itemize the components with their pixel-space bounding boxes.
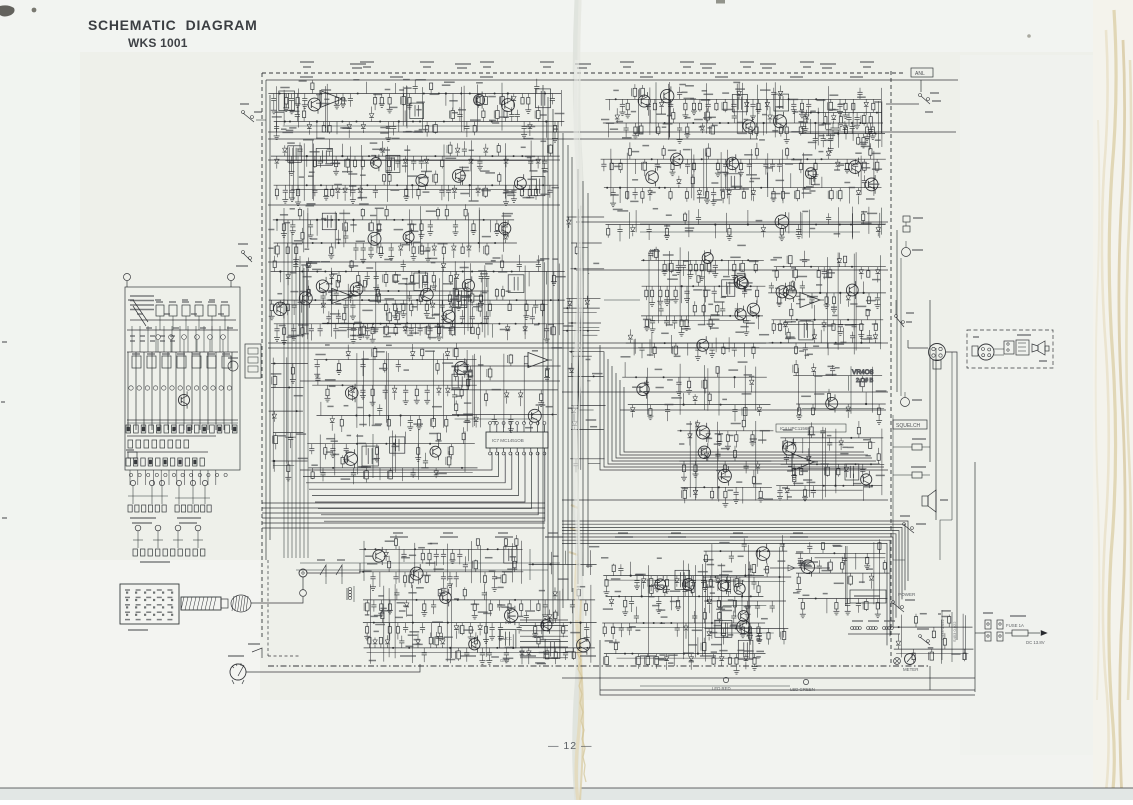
wire IC7 fan (318, 452, 532, 508)
node (842, 485, 844, 487)
label (462, 170, 469, 172)
capacitor (429, 324, 431, 329)
label (399, 89, 404, 91)
wire (758, 316, 760, 329)
label (716, 469, 723, 471)
inductor (839, 188, 841, 191)
capacitor (667, 405, 669, 410)
label (799, 110, 805, 112)
wire (365, 444, 367, 455)
wire (571, 405, 605, 407)
wire (880, 88, 882, 133)
capacitor (801, 288, 803, 293)
resistor (812, 404, 814, 408)
label (709, 318, 720, 320)
node (780, 342, 782, 344)
wire TX bus 2 (296, 569, 548, 571)
capacitor (454, 390, 456, 395)
resistor (302, 239, 304, 243)
label (860, 142, 868, 144)
resistor (837, 464, 839, 468)
node (375, 548, 377, 550)
wire (443, 145, 445, 197)
diode (573, 406, 575, 409)
label (776, 106, 784, 108)
diode (877, 267, 879, 270)
label (442, 283, 453, 285)
resistor (828, 400, 830, 404)
label (857, 96, 866, 98)
capacitor (868, 338, 870, 343)
resistor (793, 482, 795, 486)
diode (331, 272, 333, 275)
diode (276, 156, 278, 159)
label (776, 179, 785, 181)
label (680, 320, 686, 322)
scan artifact dot (32, 8, 37, 13)
capacitor (479, 156, 481, 161)
node (664, 342, 666, 344)
inductor (427, 323, 429, 326)
resistor (505, 545, 507, 549)
node (327, 322, 329, 324)
label (384, 259, 392, 261)
label (306, 261, 312, 263)
resistor (753, 483, 755, 487)
diode (766, 99, 768, 102)
label (460, 193, 469, 195)
node (434, 155, 436, 157)
label (568, 407, 579, 409)
transistor (776, 286, 788, 298)
label (527, 157, 532, 159)
capacitor (698, 220, 700, 225)
capacitor (551, 94, 553, 99)
wire (679, 460, 771, 462)
label (298, 324, 309, 326)
capacitor (717, 456, 719, 461)
label (650, 191, 656, 193)
capacitor (397, 360, 399, 365)
inductor (827, 464, 829, 467)
label (413, 423, 423, 425)
AGC stage (621, 329, 770, 360)
node (330, 299, 332, 301)
label (307, 262, 317, 264)
label (458, 109, 466, 111)
resistor (844, 263, 846, 267)
capacitor (848, 113, 850, 118)
wire (790, 173, 792, 188)
capacitor (463, 151, 465, 156)
label (359, 424, 366, 426)
wire (504, 143, 506, 198)
wire (511, 543, 513, 582)
label (791, 159, 802, 161)
wire (852, 474, 854, 486)
label (861, 222, 872, 224)
capacitor (317, 380, 319, 385)
label (802, 188, 811, 190)
wire (469, 185, 471, 197)
label (807, 353, 813, 355)
wire (394, 584, 396, 658)
resistor (684, 99, 686, 103)
label (634, 132, 643, 134)
label (682, 91, 688, 93)
label (409, 332, 419, 334)
wire (418, 272, 420, 284)
node (859, 122, 861, 124)
diode (359, 185, 361, 188)
label (844, 182, 850, 184)
resistor (389, 181, 391, 185)
label (862, 338, 872, 340)
wire (606, 224, 886, 226)
label (828, 109, 836, 111)
label (348, 290, 358, 292)
wire (767, 153, 769, 197)
IC7 pin (503, 425, 505, 432)
node (396, 184, 398, 186)
diode (337, 185, 339, 188)
capacitor (855, 159, 857, 164)
label (775, 287, 780, 289)
detector column (798, 97, 885, 152)
capacitor (322, 468, 324, 473)
dashed board border top (262, 72, 905, 74)
inductor (275, 433, 277, 436)
wire (468, 213, 470, 248)
capacitor (722, 311, 724, 316)
resistor (722, 343, 724, 347)
label (426, 562, 436, 564)
wire (433, 351, 435, 422)
label (840, 341, 846, 343)
transistor (452, 170, 465, 183)
label (306, 265, 312, 267)
wire (414, 543, 416, 577)
resistor (872, 99, 874, 103)
capacitor (832, 123, 834, 128)
wire (363, 622, 597, 624)
diode (350, 291, 352, 294)
label (386, 344, 392, 346)
label (847, 446, 853, 448)
wire y262 (268, 261, 540, 263)
label (407, 223, 416, 225)
capacitor (770, 288, 772, 293)
wire (359, 283, 361, 331)
diode (758, 405, 760, 408)
resistor (323, 122, 325, 126)
capacitor (537, 267, 539, 272)
label (749, 260, 759, 262)
resistor (815, 159, 817, 163)
wire (276, 220, 278, 231)
wire bus stub (520, 624, 568, 626)
node (498, 323, 500, 325)
label (833, 109, 839, 111)
label (536, 404, 546, 406)
capacitor (666, 316, 668, 321)
label (493, 257, 501, 259)
node (635, 376, 637, 378)
wire (305, 262, 307, 333)
capacitor (530, 156, 532, 161)
label (428, 337, 437, 339)
capacitor (714, 260, 716, 265)
label (606, 122, 614, 124)
capacitor (384, 385, 386, 390)
wire IC7 fan (321, 452, 538, 515)
transistor (274, 302, 287, 315)
label (808, 434, 816, 436)
wire (507, 94, 509, 104)
label (457, 373, 465, 375)
wire y300 right (604, 299, 640, 301)
wire (450, 584, 452, 658)
node (593, 375, 595, 377)
label (613, 208, 623, 210)
label (698, 324, 706, 326)
resistor (496, 220, 498, 224)
node (810, 112, 812, 114)
wire (375, 262, 377, 334)
wire (330, 295, 470, 297)
wire (320, 94, 322, 106)
node (531, 414, 533, 416)
capacitor (683, 260, 685, 265)
diode (568, 217, 570, 220)
capacitor (335, 324, 337, 329)
label (476, 82, 483, 84)
IC2 MC1458 squelch (641, 245, 765, 336)
wire IC7 fan (324, 452, 545, 521)
resistor (342, 464, 344, 468)
resistor (389, 94, 391, 98)
wire (796, 403, 886, 405)
capacitor (410, 324, 412, 329)
label (810, 228, 816, 230)
center filter (451, 348, 562, 433)
label (793, 482, 803, 484)
capacitor (435, 549, 437, 554)
resistor (780, 123, 782, 127)
wire (837, 134, 839, 148)
label (324, 98, 329, 100)
wire (558, 264, 560, 336)
resistor (409, 94, 411, 98)
diode (412, 357, 414, 360)
wire (579, 247, 587, 249)
label (387, 332, 398, 334)
label (370, 142, 378, 144)
label (272, 116, 282, 118)
node (727, 122, 729, 124)
resistor (388, 156, 390, 160)
wire (274, 304, 548, 306)
node (416, 599, 418, 601)
capacitor (396, 595, 398, 600)
label (370, 215, 376, 217)
wire nested bend (624, 387, 864, 452)
label (534, 324, 539, 326)
label (463, 371, 471, 373)
label (730, 256, 740, 258)
diode (433, 243, 435, 246)
label (367, 563, 377, 565)
wire (808, 430, 810, 497)
resistor (525, 300, 527, 304)
resistor (695, 260, 697, 264)
wire (379, 468, 381, 480)
transistor (430, 446, 441, 457)
label (362, 309, 373, 311)
label (298, 457, 308, 459)
node (855, 463, 857, 465)
label (358, 442, 366, 444)
label (744, 289, 752, 291)
label (827, 325, 834, 327)
node (823, 485, 825, 487)
capacitor (379, 411, 381, 416)
label (499, 116, 509, 118)
label (287, 336, 295, 338)
wire (880, 255, 882, 349)
inductor (537, 119, 539, 122)
node (353, 323, 355, 325)
label (760, 89, 771, 91)
wire (272, 358, 274, 469)
resistor (845, 123, 847, 127)
resistor (686, 188, 688, 192)
node (718, 285, 720, 287)
transistor (846, 284, 858, 296)
label (478, 270, 487, 272)
label (872, 279, 881, 281)
resistor (535, 185, 537, 189)
resistor (515, 545, 517, 549)
wire (411, 585, 413, 663)
capacitor (804, 343, 806, 348)
node (296, 410, 298, 412)
node (784, 292, 786, 294)
resistor (773, 320, 775, 324)
diode (443, 321, 445, 324)
transformer (504, 547, 517, 564)
wire (801, 112, 882, 114)
label (563, 325, 573, 327)
wire (353, 220, 355, 232)
label (371, 155, 376, 157)
scan artifact dot right (1027, 34, 1031, 38)
label (375, 207, 384, 209)
label (817, 99, 826, 101)
wire vertical bus (557, 121, 559, 616)
diode (308, 269, 310, 272)
wire (569, 351, 604, 353)
TX driver TR43 TR44 TR45 (363, 584, 597, 664)
wire (588, 462, 600, 464)
wire (273, 219, 514, 221)
diode (287, 272, 289, 275)
svg-text:— 12 —: — 12 — (548, 740, 593, 752)
diode (574, 427, 576, 430)
wire y222 right (576, 221, 888, 223)
label (855, 152, 861, 154)
label (370, 162, 375, 164)
label (421, 467, 428, 469)
wire (400, 416, 402, 427)
wire (604, 187, 882, 189)
label (685, 117, 691, 119)
node (806, 158, 808, 160)
diode (400, 243, 402, 246)
node (703, 486, 705, 488)
inductor (479, 300, 481, 303)
wire (881, 429, 883, 496)
wire (689, 421, 691, 497)
diode (470, 156, 472, 159)
svg-text:VCC: VCC (503, 636, 512, 641)
diode (446, 357, 448, 360)
capacitor (362, 243, 364, 248)
resistor (437, 360, 439, 364)
diode (746, 99, 748, 102)
wire (717, 422, 719, 499)
label (373, 93, 382, 95)
transistor (368, 232, 381, 245)
wire bus to power (562, 543, 887, 645)
node (491, 184, 493, 186)
wire (814, 372, 816, 411)
node (491, 121, 493, 123)
label (744, 154, 753, 156)
capacitor (293, 324, 295, 329)
label (294, 395, 303, 397)
node (514, 599, 516, 601)
label (281, 128, 287, 130)
wire (849, 188, 851, 204)
inductor (642, 96, 644, 99)
node (423, 93, 425, 95)
wire (852, 207, 854, 240)
node (538, 323, 540, 325)
capacitor (535, 300, 537, 305)
label (293, 243, 303, 245)
node (793, 158, 795, 160)
IF row right TR11-TR15 (601, 142, 886, 206)
capacitor (647, 99, 649, 104)
label (299, 176, 305, 178)
label (685, 227, 694, 229)
wire (312, 140, 314, 199)
wire y678 (562, 677, 975, 679)
label (610, 128, 618, 130)
resistor (798, 404, 800, 408)
wire (610, 149, 612, 197)
label (737, 122, 743, 124)
inductor (385, 272, 387, 275)
node (658, 187, 660, 189)
wire (359, 548, 522, 550)
node (515, 323, 517, 325)
inductor (366, 468, 368, 471)
resistor (663, 155, 665, 159)
capacitor (856, 113, 858, 118)
wire (727, 150, 729, 199)
